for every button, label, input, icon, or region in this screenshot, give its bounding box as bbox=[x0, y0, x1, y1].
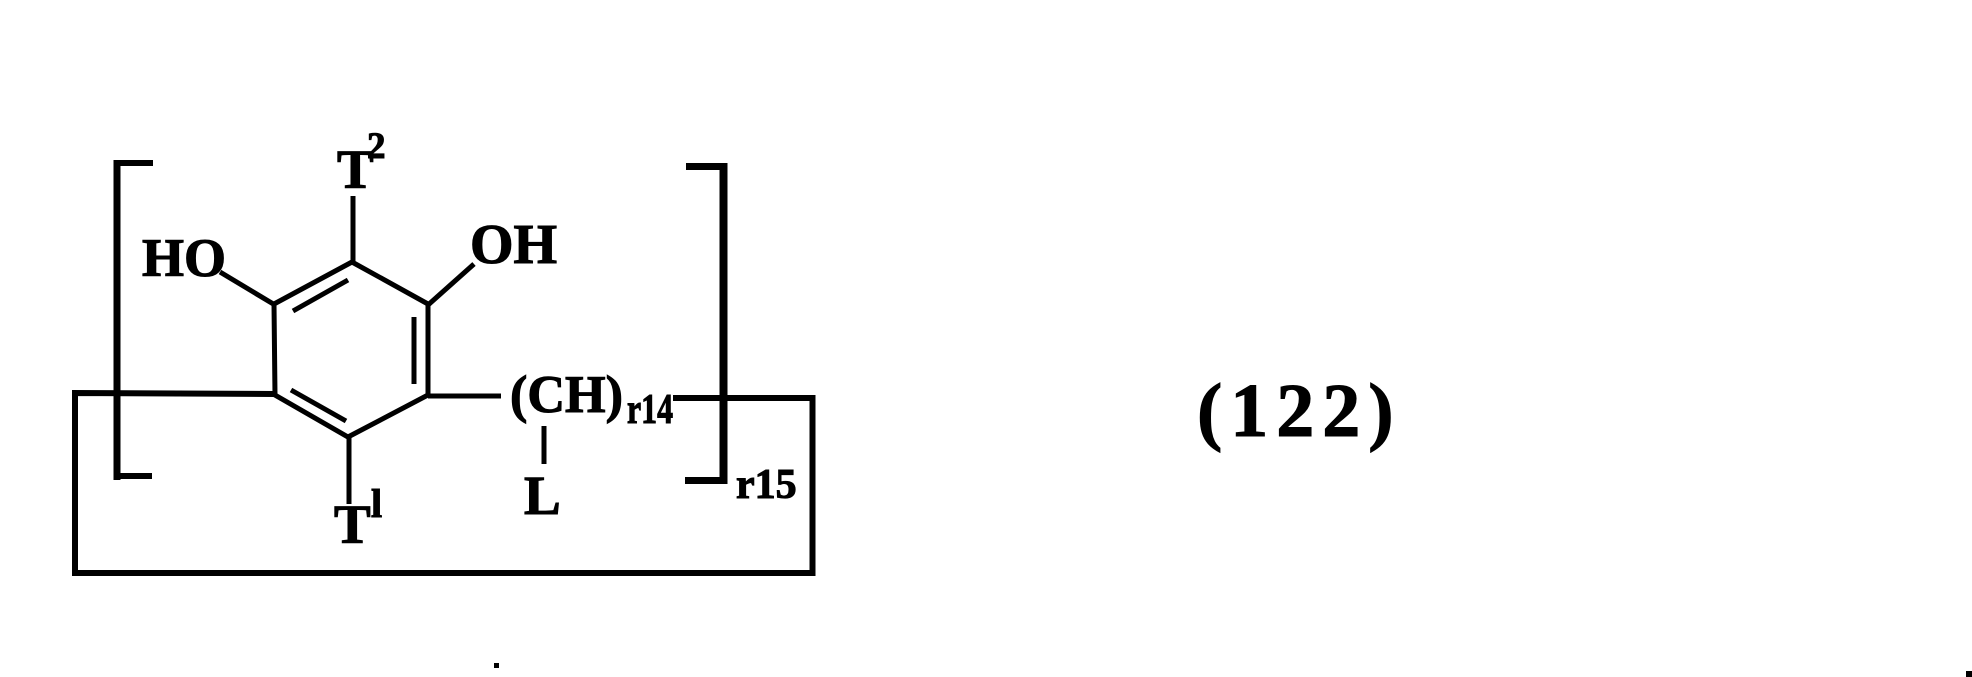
svg-text:r14: r14 bbox=[627, 387, 673, 433]
svg-text:HO: HO bbox=[142, 228, 226, 288]
bond ring to T2 bbox=[351, 196, 356, 263]
svg-text:(122): (122) bbox=[1197, 369, 1402, 453]
svg-text:2: 2 bbox=[367, 126, 386, 167]
svg-text:L: L bbox=[524, 465, 561, 526]
bond ring to OH bbox=[428, 264, 474, 305]
right bracket bbox=[685, 163, 727, 484]
left bracket bbox=[114, 160, 153, 480]
aromatic double bond (right edge) bbox=[412, 317, 417, 384]
svg-text:r15: r15 bbox=[736, 462, 797, 508]
bond (CH) to L bbox=[542, 426, 547, 464]
speck bbox=[494, 663, 499, 668]
aromatic double bond (upper-left edge) bbox=[293, 280, 348, 311]
bond ring to T1 bbox=[347, 436, 352, 504]
aromatic double bond (lower-left edge) bbox=[291, 390, 346, 421]
svg-text:OH: OH bbox=[470, 214, 557, 276]
svg-text:T: T bbox=[334, 494, 371, 555]
bond ring to (CH) bbox=[428, 394, 501, 399]
macrocycle loop wire bbox=[75, 393, 813, 573]
svg-text:(CH): (CH) bbox=[510, 366, 623, 424]
svg-text:l: l bbox=[371, 481, 382, 526]
corner speck bbox=[1966, 671, 1972, 677]
benzene ring bbox=[274, 262, 428, 437]
bond HO to ring bbox=[220, 272, 275, 305]
